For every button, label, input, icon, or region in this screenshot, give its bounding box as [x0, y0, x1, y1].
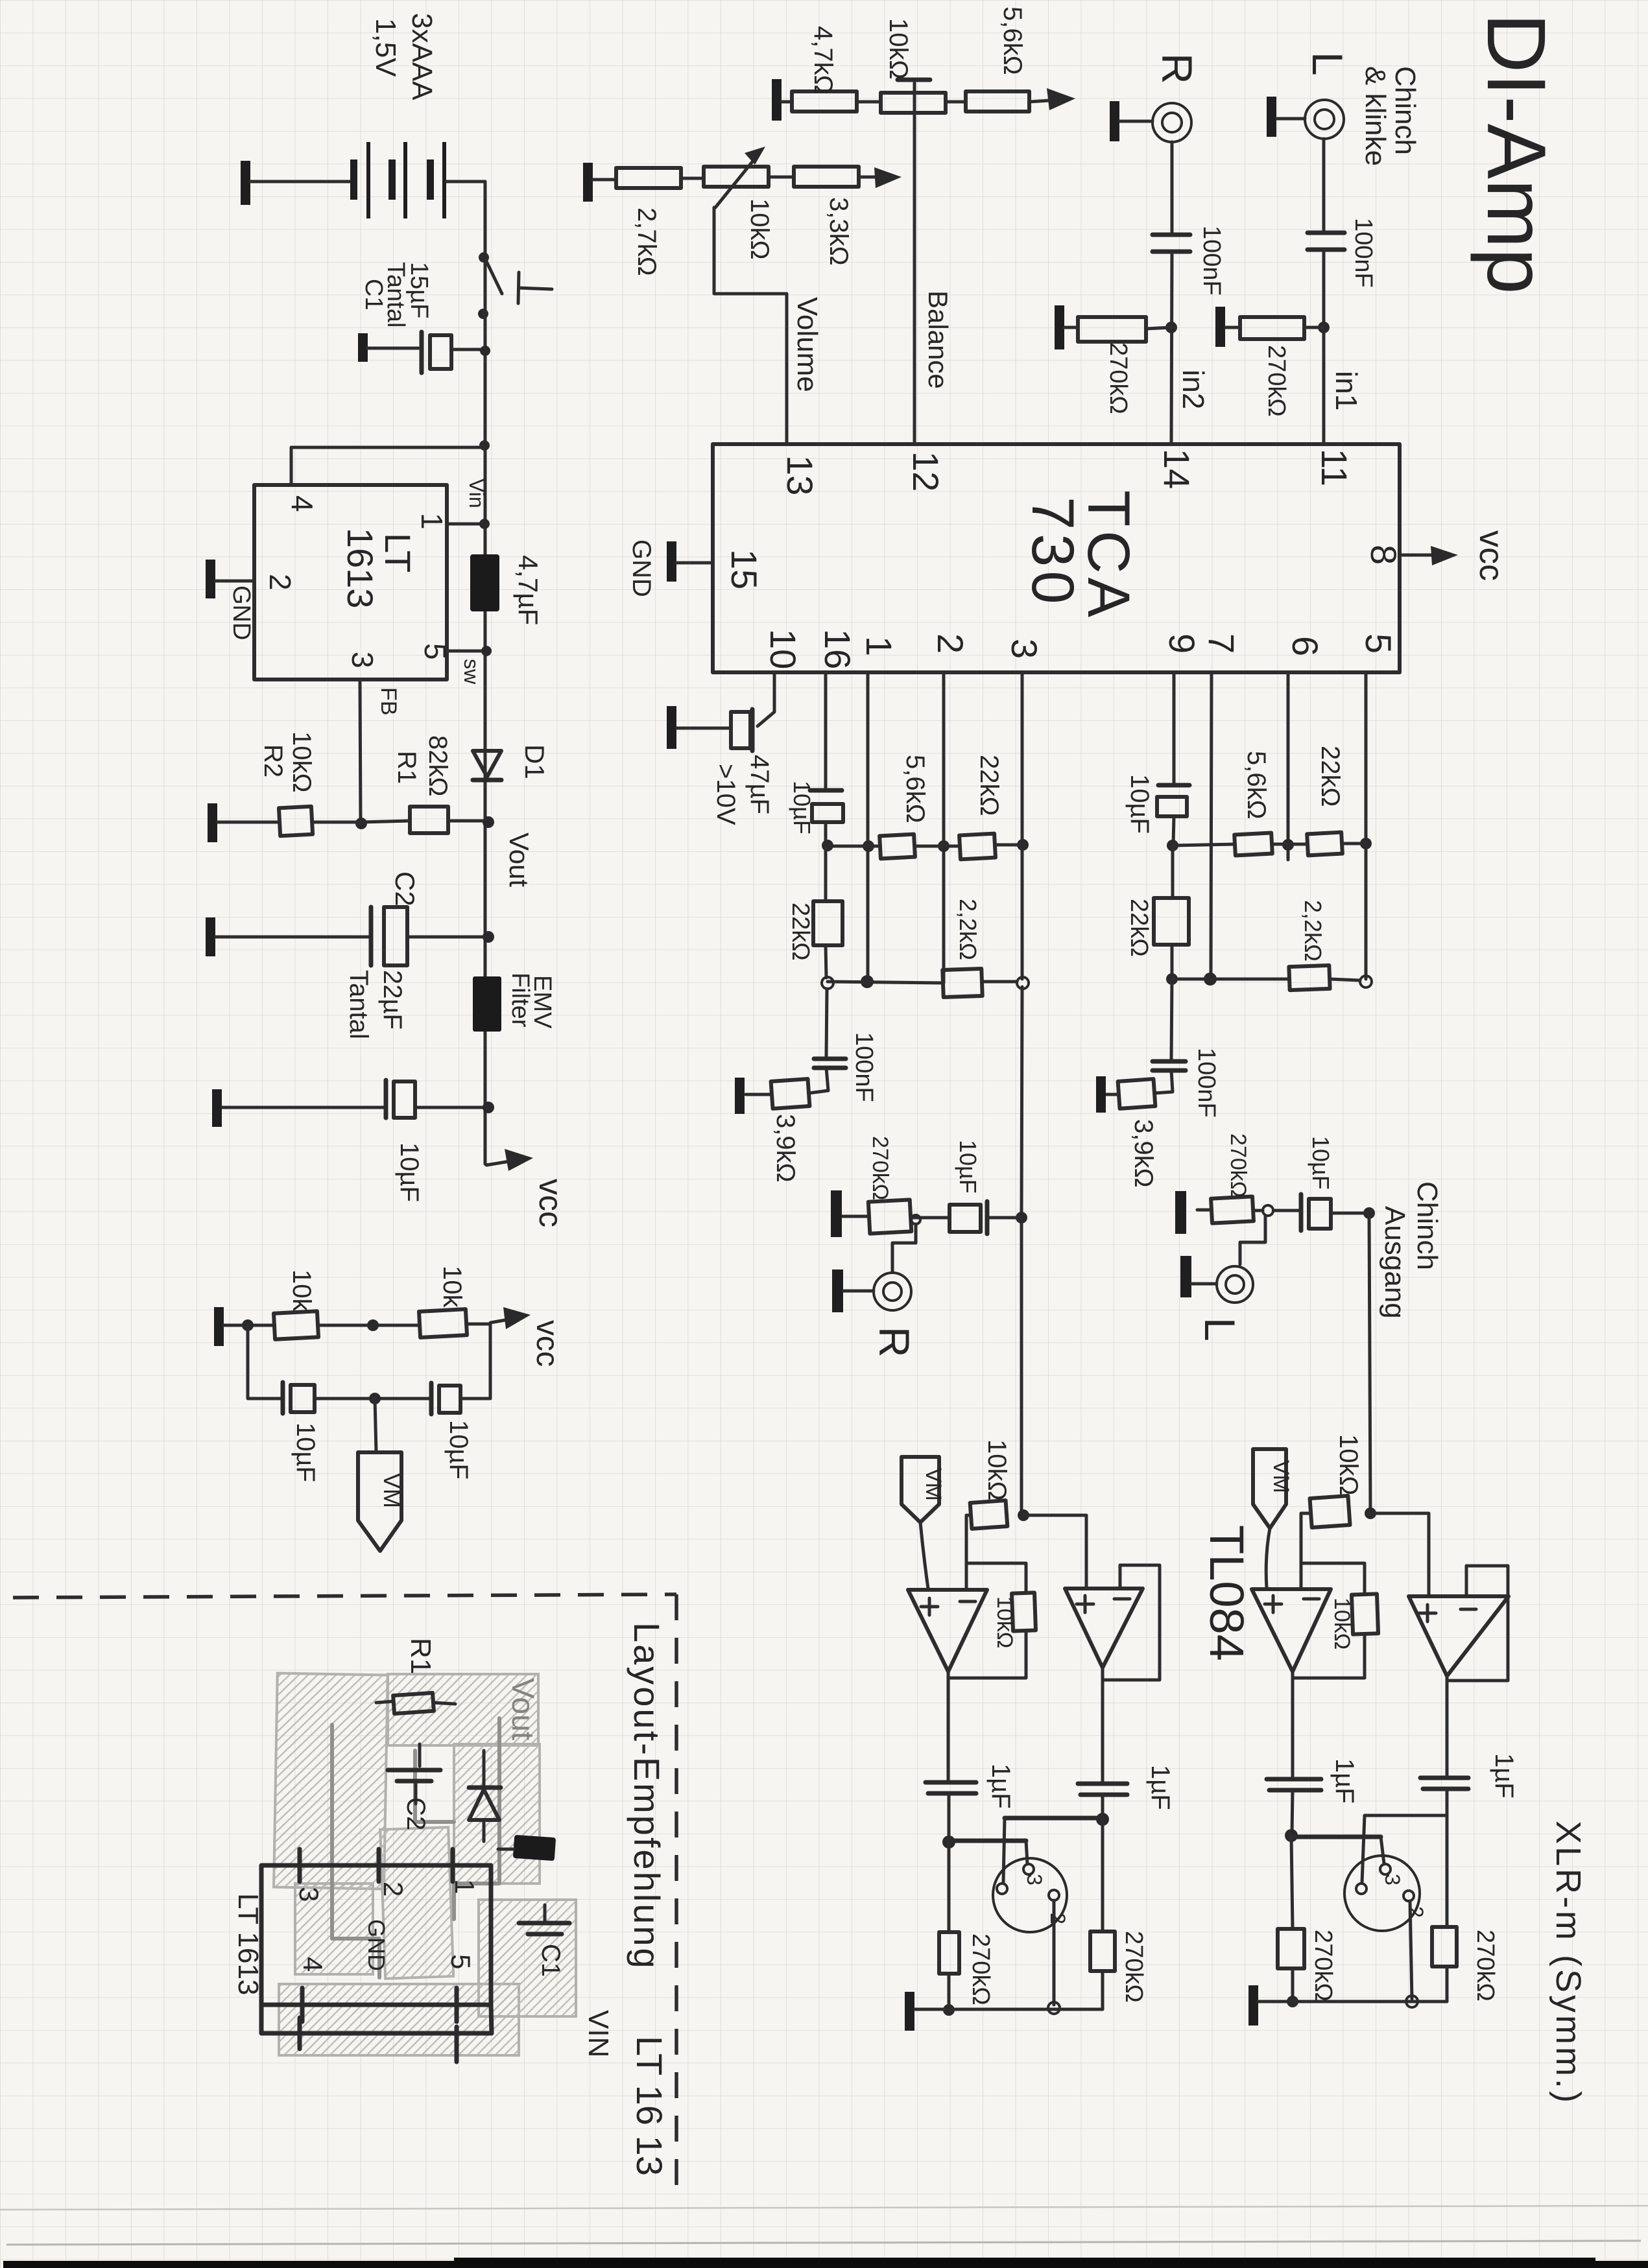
- svg-text:LT 16 13: LT 16 13: [629, 2036, 670, 2176]
- svg-text:Balance: Balance: [923, 290, 953, 389]
- svg-text:6: 6: [1285, 636, 1326, 656]
- wire inverting node op3: [1301, 1513, 1365, 1594]
- wire XLR pin1 to ground: [1048, 1900, 1060, 2014]
- svg-text:3: 3: [1381, 1874, 1404, 1885]
- potentiometer 10kOhm balance: [881, 80, 966, 113]
- wire L input: [1322, 139, 1326, 230]
- resistor 2,2kOhm row2: [942, 969, 1017, 997]
- wire op3 output: [1291, 1671, 1295, 1778]
- node J1: [1018, 1509, 1029, 1521]
- svg-text:22µF: 22µF: [378, 970, 407, 1030]
- capacitor C1 sketch: [519, 1905, 569, 1934]
- resistor 270kOhm op2: [1090, 1819, 1115, 2009]
- capacitor 47uF >10V: [667, 706, 752, 751]
- connector chinch out L: [1180, 1256, 1253, 1303]
- diode D1: [473, 744, 550, 780]
- svg-text:DI-Amp: DI-Amp: [1470, 13, 1562, 294]
- svg-text:1: 1: [859, 636, 900, 656]
- capacitor C2 22uF Tantal: [206, 907, 494, 965]
- vcc arrow VM: [490, 1307, 564, 1367]
- op-amp U2A: [908, 1590, 987, 1671]
- svg-text:4,7kΩ: 4,7kΩ: [809, 26, 837, 95]
- capacitor 10uF rail: [212, 1080, 494, 1127]
- scanner black band: [3, 2258, 1648, 2268]
- node VM flag: [358, 1399, 405, 1551]
- svg-text:16: 16: [817, 629, 858, 669]
- svg-text:2: 2: [930, 633, 971, 654]
- wire pin1: [447, 519, 490, 529]
- svg-text:4: 4: [285, 495, 319, 512]
- wire op4 to XLR pin3: [1356, 1815, 1447, 1894]
- svg-text:1: 1: [415, 513, 449, 530]
- svg-text:10µF: 10µF: [1125, 774, 1154, 834]
- switch S1: [478, 252, 552, 319]
- resistor 270kOhm op1: [939, 1842, 959, 2016]
- svg-text:R2: R2: [259, 744, 287, 777]
- svg-text:12: 12: [905, 451, 946, 491]
- resistor R1 sketch: [376, 1693, 455, 1714]
- dashed layout boundary: [13, 1594, 676, 2186]
- IC TCA730: [713, 444, 1404, 672]
- svg-text:270kΩ: 270kΩ: [967, 1933, 994, 2005]
- capacitor C1 15uF Tantal: [358, 332, 490, 373]
- svg-text:270kΩ: 270kΩ: [1120, 1931, 1147, 2003]
- svg-text:LT 1613: LT 1613: [232, 1893, 264, 1995]
- ground row left pair: [905, 1992, 1103, 2031]
- wire op3 to XLR pin2: [1291, 1837, 1391, 1874]
- svg-text:>10V: >10V: [711, 764, 740, 825]
- svg-text:Filter: Filter: [507, 973, 534, 1028]
- ground 270k in2: [1055, 305, 1078, 349]
- svg-text:3: 3: [1023, 1874, 1046, 1885]
- capacitor 100nF L: [1308, 233, 1344, 250]
- label 82kOhm R1: [392, 735, 452, 796]
- svg-text:10kΩ: 10kΩ: [745, 198, 774, 259]
- op-amp U3B: [1409, 1596, 1509, 1676]
- svg-text:Chinch: Chinch: [1411, 1181, 1443, 1270]
- svg-text:270kΩ: 270kΩ: [1309, 1930, 1337, 2002]
- resistor 270kOhm op3: [1278, 1836, 1304, 2007]
- layout sketch pencil copper areas: [274, 1673, 576, 2055]
- svg-text:3: 3: [1004, 639, 1045, 659]
- vcc arrow rail: [485, 1149, 569, 1227]
- svg-text:3: 3: [346, 652, 379, 668]
- svg-text:Layout-Empfehlung: Layout-Empfehlung: [627, 1622, 667, 1970]
- resistor 3,9kOhm left: [735, 1078, 809, 1114]
- resistor 22kOhm row1R: [1307, 833, 1366, 856]
- svg-text:10µF: 10µF: [955, 1140, 981, 1194]
- wire pin5 to J2: [1365, 1213, 1376, 1519]
- svg-text:3,9kΩ: 3,9kΩ: [771, 1114, 800, 1183]
- connector XLR right: [1344, 1856, 1427, 1931]
- ground pin15: [667, 541, 713, 582]
- svg-text:5,6kΩ: 5,6kΩ: [1242, 751, 1271, 820]
- EMV blob sketch: [498, 1835, 556, 1861]
- wire J1 to op2 +: [1023, 1515, 1086, 1589]
- wire pin12 Balance: [913, 83, 916, 444]
- node junction L out: [1363, 1207, 1375, 1219]
- resistor 3,3kOhm: [794, 167, 902, 188]
- svg-text:FB: FB: [376, 687, 401, 715]
- wire pin3 to output R: [1016, 987, 1027, 1515]
- svg-text:Chinch: Chinch: [1389, 66, 1421, 155]
- svg-text:XLR-m (Symm.): XLR-m (Symm.): [1549, 1821, 1588, 2105]
- capacitor 1uF op1: [926, 1782, 976, 1849]
- svg-text:D1: D1: [519, 744, 550, 779]
- battery B1 3xAAA 1,5V: [350, 142, 485, 219]
- connector XLR left: [993, 1858, 1069, 1932]
- svg-text:10kΩ: 10kΩ: [983, 1439, 1011, 1500]
- ground chinch L: [1267, 97, 1305, 137]
- svg-text:47µF: 47µF: [745, 755, 774, 814]
- resistor 270kOhm op4: [1432, 1815, 1457, 2002]
- wire feedback loop op4: [1447, 1566, 1508, 1681]
- wire pin2: [938, 672, 949, 983]
- svg-text:Ausgang: Ausgang: [1379, 1206, 1411, 1319]
- ground 270k in1: [1215, 307, 1240, 347]
- wire row2 right: [1172, 978, 1289, 981]
- wire in1: [1318, 250, 1330, 444]
- IC LT1613 sketch outline: [261, 1849, 491, 2022]
- layout sketch pencil traces: [332, 1718, 499, 1978]
- svg-text:10k: 10k: [287, 1270, 316, 1312]
- svg-text:VM: VM: [379, 1473, 405, 1508]
- svg-text:3,3kΩ: 3,3kΩ: [824, 197, 853, 266]
- wire row2 left: [828, 982, 943, 983]
- svg-text:10kΩ: 10kΩ: [1334, 1434, 1363, 1495]
- capacitor 100nF pin9: [1152, 979, 1186, 1093]
- capacitor 100nF R: [1152, 235, 1190, 252]
- svg-text:10µF: 10µF: [789, 781, 815, 834]
- ground R2: [208, 803, 280, 842]
- svg-text:C1: C1: [360, 279, 387, 311]
- resistor 22kOhm pin16: [813, 845, 842, 989]
- svg-text:4,7µF: 4,7µF: [513, 555, 543, 625]
- resistor R1 82kOhm: [361, 807, 494, 833]
- svg-text:270kΩ: 270kΩ: [1263, 345, 1290, 417]
- VM flag op3: [1253, 1449, 1293, 1588]
- svg-text:3: 3: [294, 1887, 324, 1902]
- label 15uF Tantal C1: [360, 262, 433, 327]
- svg-text:1613: 1613: [340, 528, 381, 609]
- resistor 10k (VM left): [274, 1311, 420, 1339]
- svg-text:14: 14: [1156, 449, 1197, 489]
- svg-text:22kΩ: 22kΩ: [975, 755, 1003, 816]
- svg-text:2: 2: [263, 574, 297, 591]
- VM flag op1: [902, 1457, 946, 1589]
- resistor 10kOhm fb op1: [948, 1592, 1036, 1678]
- wire FB pin3: [355, 679, 367, 829]
- wire pin7: [1204, 672, 1217, 986]
- svg-text:22kΩ: 22kΩ: [1125, 899, 1152, 957]
- svg-text:Volume: Volume: [791, 297, 823, 392]
- svg-text:10µF: 10µF: [291, 1423, 320, 1482]
- svg-text:GND: GND: [228, 585, 255, 640]
- wire op2 to XLR pin3: [997, 1818, 1103, 1894]
- connector chinch out R: [832, 1270, 911, 1312]
- label Chinch & klinke: [1359, 66, 1421, 166]
- wire battery to switch: [484, 182, 487, 256]
- resistor 10k (VM right): [419, 1309, 490, 1338]
- wire row1 left: [828, 845, 880, 848]
- wire feedback loop op2: [1103, 1565, 1160, 1680]
- svg-text:2,2kΩ: 2,2kΩ: [1300, 900, 1326, 962]
- svg-text:1µF: 1µF: [1146, 1765, 1175, 1810]
- wire to chinch out L: [1240, 1216, 1265, 1264]
- svg-text:C2: C2: [390, 871, 420, 906]
- wire pin16: [824, 672, 828, 788]
- svg-text:C2: C2: [401, 1797, 430, 1830]
- resistor R2 10kOhm: [279, 807, 361, 836]
- svg-text:13: 13: [780, 455, 820, 495]
- wire pin1: [861, 672, 874, 988]
- resistor 2,7kOhm: [616, 168, 704, 188]
- svg-text:10kΩ: 10kΩ: [992, 1596, 1017, 1648]
- svg-text:82kΩ: 82kΩ: [424, 735, 452, 796]
- resistor 10kOhm J2: [1310, 1496, 1350, 1528]
- svg-text:VIN: VIN: [582, 2010, 614, 2057]
- ground balance chain: [772, 79, 792, 121]
- svg-text:10: 10: [763, 629, 804, 669]
- wire inverting node op1: [966, 1515, 1026, 1593]
- svg-text:100nF: 100nF: [1198, 226, 1225, 296]
- svg-text:270kΩ: 270kΩ: [1226, 1133, 1250, 1198]
- resistor 270kOhm in1: [1240, 317, 1324, 339]
- capacitor 100nF pin16: [809, 989, 846, 1093]
- svg-text:1µF: 1µF: [986, 1764, 1015, 1809]
- label Layout-Empfehlung LT 1613: [627, 1622, 670, 2176]
- label 3xAAA 1,5V: [370, 13, 438, 100]
- svg-text:5: 5: [446, 1954, 476, 1969]
- svg-text:GND: GND: [627, 539, 656, 597]
- svg-text:Vout: Vout: [505, 1678, 540, 1740]
- svg-text:270kΩ: 270kΩ: [868, 1136, 892, 1200]
- wire XLR pin1 to ground: [1406, 1901, 1418, 2007]
- wire row1 right: [1174, 844, 1235, 845]
- svg-text:2: 2: [378, 1882, 409, 1896]
- svg-text:1,5V: 1,5V: [370, 18, 401, 77]
- svg-text:15: 15: [724, 549, 765, 589]
- resistor 10kOhm J1: [970, 1500, 1008, 1529]
- wire op4 output: [1446, 1676, 1449, 1777]
- resistor 5,6kOhm row1R: [1234, 833, 1308, 856]
- wire R input: [1171, 142, 1174, 233]
- svg-text:LT: LT: [377, 533, 418, 573]
- svg-text:10k: 10k: [438, 1266, 466, 1308]
- svg-text:VM: VM: [921, 1468, 946, 1501]
- resistor 10kOhm fb op3: [1293, 1594, 1378, 1678]
- svg-text:GND: GND: [363, 1919, 390, 1971]
- wire op2 output: [1101, 1680, 1105, 1782]
- svg-text:270kΩ: 270kΩ: [1105, 342, 1132, 414]
- vcc arrow pin8: [1400, 530, 1510, 581]
- connector chinch L: [1305, 100, 1344, 139]
- capacitor 1uF op2: [1078, 1784, 1127, 1826]
- svg-text:1µF: 1µF: [1330, 1758, 1359, 1804]
- diode sketch: [469, 1751, 501, 1841]
- svg-text:270kΩ: 270kΩ: [1472, 1930, 1499, 2002]
- svg-text:R1: R1: [392, 751, 421, 784]
- resistor 270kOhm out R: [831, 1190, 911, 1237]
- wire op1 output: [947, 1671, 950, 1781]
- svg-text:R1: R1: [405, 1638, 436, 1674]
- wire op1 to XLR pin2: [949, 1841, 1034, 1874]
- svg-text:Tantal: Tantal: [344, 970, 373, 1039]
- svg-text:VM: VM: [1269, 1460, 1293, 1493]
- svg-text:100nF: 100nF: [1193, 1048, 1220, 1118]
- battery ground: [241, 161, 351, 205]
- svg-text:Vin: Vin: [465, 478, 488, 508]
- resistor 5,6kOhm row1: [879, 834, 960, 859]
- svg-text:100nF: 100nF: [1350, 218, 1377, 288]
- svg-text:R: R: [870, 1327, 918, 1358]
- EMV filter: [473, 973, 556, 1032]
- wire sketch bottom: [261, 2005, 492, 2062]
- svg-text:in2: in2: [1176, 370, 1210, 409]
- svg-text:sw: sw: [460, 659, 483, 685]
- svg-text:C1: C1: [536, 1944, 565, 1977]
- main power rail: [484, 259, 487, 1164]
- wire pin3: [1017, 672, 1029, 989]
- label 22uF Tantal: [344, 970, 407, 1039]
- resistor 3,9kOhm right: [1096, 1076, 1155, 1113]
- svg-text:5,6kΩ: 5,6kΩ: [998, 6, 1027, 75]
- svg-text:L: L: [1304, 52, 1352, 76]
- svg-text:10µF: 10µF: [1308, 1136, 1334, 1190]
- svg-text:2: 2: [1404, 1906, 1427, 1918]
- wire pin5: [447, 646, 492, 656]
- svg-text:5,6kΩ: 5,6kΩ: [901, 755, 929, 823]
- ground chinch R: [1110, 101, 1152, 141]
- wire pin4 to rail: [291, 447, 484, 485]
- capacitor 10uF (VM right): [431, 1324, 490, 1414]
- resistor 22kOhm row1: [959, 834, 1023, 860]
- svg-text:100nF: 100nF: [850, 1032, 878, 1102]
- resistor 2,2kOhm row2R: [1289, 965, 1360, 990]
- svg-text:10kΩ: 10kΩ: [1330, 1598, 1354, 1649]
- connector chinch R: [1152, 103, 1191, 142]
- pin labels sketch: [294, 1879, 480, 1972]
- capacitor 10uF pin16: [810, 790, 843, 851]
- svg-text:22kΩ: 22kΩ: [787, 903, 814, 961]
- wire to chinch out R: [911, 1215, 920, 1224]
- svg-text:vcc: vcc: [1472, 530, 1510, 581]
- op-amp U2B: [1065, 1589, 1143, 1668]
- capacitor 10uF out R: [911, 1201, 1021, 1234]
- capacitor 10uF (VM left): [283, 1382, 431, 1413]
- svg-text:2,2kΩ: 2,2kΩ: [955, 899, 981, 960]
- ground row right pair: [1248, 1985, 1447, 2026]
- svg-text:10kΩ: 10kΩ: [884, 18, 913, 79]
- svg-text:5: 5: [1358, 633, 1399, 654]
- wire in2: [1165, 252, 1177, 444]
- potentiometer 10kOhm volume: [704, 147, 794, 207]
- svg-text:10µF: 10µF: [395, 1142, 424, 1202]
- wire pin6: [1282, 672, 1294, 860]
- svg-text:4: 4: [298, 1957, 328, 1972]
- wire pin10: [758, 672, 774, 726]
- svg-text:Vout: Vout: [504, 833, 534, 887]
- svg-text:vcc: vcc: [532, 1179, 569, 1227]
- IC LT1613: [254, 485, 452, 679]
- svg-text:730: 730: [1020, 497, 1086, 608]
- svg-text:2,7kΩ: 2,7kΩ: [632, 207, 661, 276]
- svg-text:3,9kΩ: 3,9kΩ: [1129, 1119, 1158, 1188]
- svg-text:3xAAA: 3xAAA: [406, 13, 438, 100]
- resistor 5,6kOhm: [966, 88, 1075, 112]
- node Vin junction: [479, 440, 490, 451]
- svg-text:vcc: vcc: [530, 1320, 564, 1367]
- wire VM loop: [248, 1325, 283, 1399]
- label 10kOhm R2: [259, 731, 316, 792]
- capacitor 10uF pin9: [1157, 785, 1189, 851]
- resistor 270kOhm in2: [1078, 317, 1171, 342]
- svg-text:7: 7: [1201, 633, 1242, 654]
- resistor 4,7kOhm: [792, 91, 881, 112]
- svg-text:1µF: 1µF: [1490, 1753, 1518, 1799]
- capacitor 1uF op3: [1267, 1779, 1321, 1842]
- VM reference ground: [214, 1307, 274, 1346]
- capacitor 4,7uF (elko): [470, 554, 543, 625]
- resistor 270kOhm out L: [1175, 1191, 1263, 1234]
- wire pin13 Volume: [714, 207, 787, 444]
- svg-text:10kΩ: 10kΩ: [287, 731, 316, 792]
- svg-text:in1: in1: [1330, 371, 1363, 410]
- page bottom rule lines: [0, 2206, 1648, 2245]
- op-amp U3A: [1252, 1589, 1331, 1671]
- wire pin5: [1360, 672, 1372, 987]
- capacitor C2 sketch: [388, 1744, 440, 1804]
- svg-text:11: 11: [1314, 449, 1355, 486]
- svg-text:22kΩ: 22kΩ: [1316, 746, 1344, 807]
- svg-text:1: 1: [449, 1879, 480, 1894]
- label 47uF >10V: [711, 755, 774, 825]
- capacitor 10uF out L: [1263, 1194, 1369, 1231]
- resistor 22kOhm pin9: [1154, 845, 1189, 985]
- wire pin9: [1173, 672, 1176, 784]
- svg-text:TL084: TL084: [1200, 1525, 1254, 1661]
- svg-text:2: 2: [1046, 1913, 1069, 1924]
- label Chinch Ausgang: [1379, 1181, 1443, 1319]
- ground volume chain: [583, 163, 616, 202]
- svg-text:L: L: [1196, 1317, 1244, 1341]
- svg-text:9: 9: [1162, 633, 1202, 654]
- svg-text:& klinke: & klinke: [1359, 66, 1391, 166]
- ground LT1613 pin2: [206, 560, 254, 598]
- wire J2 to op4 +: [1370, 1513, 1429, 1596]
- svg-text:R: R: [1153, 53, 1201, 84]
- svg-text:10µF: 10µF: [444, 1420, 473, 1480]
- capacitor 1uF op4: [1420, 1778, 1468, 1815]
